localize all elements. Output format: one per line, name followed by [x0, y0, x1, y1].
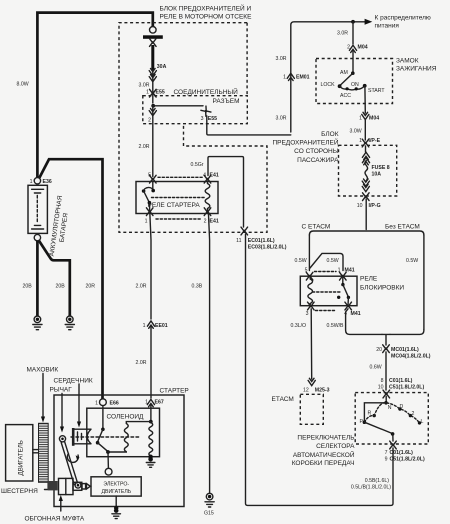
svg-text:0.5W/B: 0.5W/B: [327, 323, 345, 329]
svg-text:2: 2: [204, 219, 207, 225]
battery АККУМУЛЯТОРНАЯ БАТАРЕЯ: [28, 185, 70, 256]
svg-text:РЕЛЕ: РЕЛЕ: [360, 276, 378, 283]
dashed connector strip bottom M41: [316, 310, 337, 312]
svg-text:LOCK: LOCK: [321, 82, 336, 88]
connector chevron below 30A: [149, 69, 156, 76]
svg-text:MC01(1.6L): MC01(1.6L): [391, 347, 419, 353]
starter СТАРТЕР box: [54, 395, 184, 507]
svg-text:M41: M41: [345, 268, 355, 274]
svg-text:ПРЕДОХРАНИТЕЛЕЙ: ПРЕДОХРАНИТЕЛЕЙ: [272, 138, 338, 147]
svg-text:1: 1: [338, 268, 341, 274]
ignition switch dashed box ЗАМОК ЗАЖИГАНИЯ: [316, 59, 393, 104]
svg-text:1: 1: [30, 179, 33, 185]
svg-text:FUSE 8: FUSE 8: [372, 165, 390, 171]
svg-text:ПАССАЖИРА: ПАССАЖИРА: [297, 157, 339, 164]
svg-text:0.5L/B(1.8L/2.0L): 0.5L/B(1.8L/2.0L): [351, 485, 391, 491]
lock relay РЕЛЕ БЛОКИРОВКИ box: [300, 276, 357, 306]
svg-text:ДВИГАТЕЛЬ: ДВИГАТЕЛЬ: [18, 440, 25, 475]
connector 1 M04 lower: [362, 112, 369, 119]
solenoid hold-in coil from E67: [150, 405, 152, 421]
svg-text:КОРОБКИ ПЕРЕДАЧ: КОРОБКИ ПЕРЕДАЧ: [292, 460, 355, 467]
hold-in coil ground: [148, 455, 152, 459]
ground battery 2: [65, 316, 74, 330]
connector pin1 E41: [146, 208, 153, 216]
fuse 8 lower clip chevrons: [362, 179, 369, 186]
svg-text:3: 3: [306, 311, 309, 317]
svg-text:8.0W: 8.0W: [17, 82, 29, 88]
svg-text:E41: E41: [210, 219, 219, 225]
wire branch to M41 pin1: [310, 253, 343, 270]
svg-text:ЭЛЕКТРО-: ЭЛЕКТРО-: [103, 481, 129, 487]
terminal 1 E66 circle: [100, 399, 107, 406]
svg-text:20B: 20B: [23, 284, 33, 290]
svg-text:СЕЛЕКТОРА: СЕЛЕКТОРА: [316, 443, 355, 450]
svg-text:1: 1: [146, 90, 149, 96]
svg-text:5: 5: [148, 173, 151, 179]
svg-text:ЗАЖИГАНИЯ: ЗАЖИГАНИЯ: [396, 65, 437, 72]
connector strip dashes E41 top: [158, 176, 203, 178]
fuse 8 element: [365, 161, 368, 182]
svg-text:СЕРДЕЧНИК: СЕРДЕЧНИК: [54, 377, 93, 384]
dashed connector strip top M41: [315, 271, 337, 273]
svg-text:30A: 30A: [157, 64, 167, 70]
svg-text:P: P: [360, 419, 364, 425]
ground battery 1: [33, 316, 42, 330]
svg-text:EC03(1.8L/2.0L): EC03(1.8L/2.0L): [248, 244, 287, 250]
svg-text:2.0R: 2.0R: [139, 144, 150, 150]
svg-text:0.5W: 0.5W: [406, 258, 418, 264]
wire motor to ground: [115, 496, 117, 507]
svg-text:10: 10: [378, 385, 384, 391]
split rail with/without ETACM: [309, 231, 424, 235]
svg-text:2: 2: [347, 45, 350, 51]
svg-text:0.5W: 0.5W: [327, 258, 339, 264]
svg-text:Без ЕТАСМ: Без ЕТАСМ: [385, 224, 420, 231]
fusible link connector chevron: [150, 39, 157, 47]
passenger fuse box dashed outline: [339, 145, 397, 196]
pinion pointer line: [45, 489, 48, 491]
wire 2.0R EE01 to starter E67: [150, 327, 152, 398]
wire I/P-G down to split: [365, 199, 367, 230]
svg-text:10: 10: [357, 203, 363, 209]
svg-text:E66: E66: [110, 401, 119, 407]
connector pin2 E41: [204, 208, 211, 216]
svg-text:5: 5: [305, 268, 308, 274]
junction node power feed: [351, 20, 355, 24]
junction connector dashed box: [143, 96, 248, 124]
wire right branch to merge: [390, 330, 424, 335]
svg-text:3.0R: 3.0R: [276, 116, 287, 122]
svg-text:РЫЧАГ: РЫЧАГ: [50, 387, 73, 394]
svg-text:ЕТАСМ: ЕТАСМ: [272, 396, 294, 403]
svg-text:2.0R: 2.0R: [136, 284, 147, 290]
pinion ШЕСТЕРНЯ dark block: [47, 481, 57, 490]
svg-text:ПЕРЕКЛЮЧАТЕЛЬ: ПЕРЕКЛЮЧАТЕЛЬ: [297, 435, 354, 442]
svg-text:1: 1: [359, 138, 362, 144]
svg-text:АВТОМАТИЧЕСКОЙ: АВТОМАТИЧЕСКОЙ: [293, 450, 355, 459]
svg-text:11: 11: [236, 238, 241, 244]
lever arm РЫЧАГ: [59, 436, 81, 488]
svg-text:0.6W: 0.6W: [370, 365, 382, 371]
wire 2.0R relay pin1 down to EE01: [150, 215, 151, 320]
svg-text:EE01: EE01: [155, 323, 168, 329]
svg-text:M04: M04: [358, 45, 368, 51]
svg-text:START: START: [368, 88, 385, 94]
svg-text:E36: E36: [43, 179, 52, 185]
svg-text:1: 1: [143, 323, 146, 329]
svg-text:1: 1: [145, 400, 148, 406]
svg-text:ДВИГАТЕЛЬ: ДВИГАТЕЛЬ: [101, 489, 131, 495]
svg-text:0.3B: 0.3B: [192, 284, 203, 290]
svg-text:С ЕТАСМ: С ЕТАСМ: [302, 224, 331, 231]
connector 2 M04: [349, 45, 356, 52]
solenoid main contact: [96, 406, 110, 454]
svg-text:0.5B(1.6L): 0.5B(1.6L): [365, 478, 389, 484]
svg-text:M25-3: M25-3: [315, 388, 330, 394]
svg-text:C51(1.8L/2.0L): C51(1.8L/2.0L): [389, 385, 424, 391]
wire junction to pin3: [153, 105, 203, 107]
battery B- terminal circle: [34, 234, 40, 240]
starter relay РЕЛЕ СТАРТЕРА box: [136, 182, 218, 214]
svg-text:1: 1: [283, 75, 286, 81]
connector 1 EM01: [287, 73, 294, 80]
electric motor ЭЛЕКТРО-ДВИГАТЕЛЬ box: [91, 477, 141, 496]
svg-text:СТАРТЕР: СТАРТЕР: [160, 387, 189, 394]
relay E41 contact: [142, 182, 205, 212]
connector 3 E55 diagonal: [201, 106, 211, 116]
connector pin1 M41: [340, 272, 347, 280]
connector pin5 M41: [306, 272, 313, 280]
fusible link 30A body: [151, 45, 154, 70]
svg-text:EC01(1.6L): EC01(1.6L): [248, 238, 275, 244]
svg-text:СОЛЕНОИД: СОЛЕНОИД: [107, 414, 145, 421]
svg-text:ACC: ACC: [340, 93, 351, 99]
fusible link bar: [143, 35, 163, 39]
connector 12 M25-3: [308, 378, 315, 385]
svg-text:питания: питания: [375, 23, 400, 30]
battery positive cable 20R to starter: [39, 159, 103, 398]
junction node E55: [151, 104, 155, 108]
svg-text:3.0R: 3.0R: [337, 31, 348, 37]
svg-text:E55: E55: [208, 116, 217, 122]
fuse 8 upper clip chevrons: [365, 146, 367, 152]
wire 3.0R link to E55: [152, 70, 154, 103]
svg-text:ШЕСТЕРНЯ: ШЕСТЕРНЯ: [1, 488, 38, 495]
svg-text:EM01: EM01: [296, 75, 310, 81]
connector 10 I/P-G: [363, 193, 370, 201]
ETACM dashed box: [300, 394, 323, 424]
svg-text:0.5Gr: 0.5Gr: [191, 162, 204, 168]
svg-text:1: 1: [359, 116, 362, 122]
motor ground: [114, 506, 118, 510]
engine compartment fuse box dashed outline: [119, 23, 267, 233]
overrunning clutch body: [59, 478, 92, 494]
svg-text:10A: 10A: [372, 172, 382, 178]
svg-text:MC04(1.8L/2.0L): MC04(1.8L/2.0L): [391, 354, 431, 360]
wire without-ETACM branch down: [423, 235, 425, 330]
wire START to I/P-E: [364, 86, 366, 113]
wire battery+ to fusible link (8.0W thick): [37, 13, 152, 178]
connector pin5 E41: [150, 175, 157, 183]
svg-text:2: 2: [148, 118, 151, 124]
svg-text:C01(1.6L): C01(1.6L): [389, 378, 413, 384]
connector strip dashes E41 bottom: [156, 218, 202, 220]
svg-text:РЕЛЕ В МОТОРНОМ ОТСЕКЕ: РЕЛЕ В МОТОРНОМ ОТСЕКЕ: [160, 14, 253, 21]
svg-text:I/P-E: I/P-E: [369, 138, 381, 144]
svg-text:E67: E67: [155, 400, 164, 406]
svg-text:1: 1: [145, 219, 148, 225]
wire E55-3 to EM01 link: [207, 116, 291, 135]
arrowhead to power distributor: [365, 19, 373, 25]
ground G15: [205, 493, 214, 507]
connector 11 EC01/EC03: [241, 227, 248, 235]
svg-text:M04: M04: [369, 116, 379, 122]
connector 1 E67: [147, 399, 154, 406]
wire M terminal to motor: [107, 452, 109, 468]
fusible link 30A circle terminal: [150, 27, 157, 34]
connector 1 E55: [150, 89, 157, 97]
battery B+ terminal circle E36: [34, 178, 40, 184]
connector pin3 M41: [308, 302, 315, 310]
solenoid plunger link dashed: [71, 436, 141, 438]
svg-text:20R: 20R: [86, 284, 96, 290]
solenoid pull-in coil: [108, 422, 151, 452]
svg-text:N: N: [388, 405, 392, 411]
svg-text:8: 8: [381, 378, 384, 384]
connector 2 E55: [149, 109, 156, 116]
wire 20B battery- branch to ground 2: [39, 241, 70, 316]
relay E41 coil: [205, 182, 210, 214]
svg-text:ON: ON: [351, 82, 359, 88]
wire 2.0R junction to relay pin5: [152, 106, 154, 177]
svg-text:БЛОКИРОВКИ: БЛОКИРОВКИ: [360, 285, 404, 292]
svg-text:СОЕДИНИТЕЛЬНЫЙ: СОЕДИНИТЕЛЬНЫЙ: [174, 87, 239, 96]
svg-text:C51(1.8L/2.0L): C51(1.8L/2.0L): [390, 457, 425, 463]
connector 1 EE01: [147, 321, 154, 328]
connector 7/9 C01 C51 bottom: [390, 441, 397, 449]
solenoid СОЛЕНОИД box: [87, 408, 160, 457]
svg-text:M41: M41: [351, 311, 361, 317]
svg-text:СО СТОРОНЫ: СО СТОРОНЫ: [294, 148, 339, 155]
svg-text:ОБГОННАЯ МУФТА: ОБГОННАЯ МУФТА: [25, 516, 85, 523]
wire with-ETACM branch down: [308, 235, 310, 271]
svg-text:L: L: [421, 419, 424, 425]
wire 0.3L/O pin3 to M25-3: [310, 309, 313, 379]
svg-text:12: 12: [303, 388, 309, 394]
connector 1 I/P-E: [362, 139, 369, 147]
wire 3.0W: [364, 120, 366, 140]
connector pin4 M41: [345, 302, 352, 310]
svg-text:ЗАМОК: ЗАМОК: [396, 57, 419, 64]
svg-text:БЛОК ПРЕДОХРАНИТЕЛЕЙ И: БЛОК ПРЕДОХРАНИТЕЛЕЙ И: [160, 4, 252, 13]
wire 20B battery- to ground 1: [36, 241, 39, 316]
wire 0.5Gr E41-4 to EC01: [208, 157, 244, 227]
wire 0.3B relay pin2 down to G15: [209, 215, 210, 494]
selector switch dashed box: [355, 393, 428, 444]
svg-text:0.3L/O: 0.3L/O: [291, 323, 307, 329]
svg-text:3.0R: 3.0R: [276, 56, 287, 62]
svg-text:0.5W: 0.5W: [295, 258, 307, 264]
wire 0.5B selector to EC01: [246, 234, 394, 505]
svg-text:РЕЛЕ СТАРТЕРА: РЕЛЕ СТАРТЕРА: [148, 202, 201, 209]
svg-text:К распределителю: К распределителю: [375, 15, 431, 22]
merge rail to MC01: [382, 334, 390, 345]
svg-text:20: 20: [376, 347, 382, 353]
svg-text:E55: E55: [156, 90, 165, 96]
svg-text:РАЗЪЕМ: РАЗЪЕМ: [213, 98, 240, 105]
wire 0.6W: [385, 352, 387, 390]
flywheel hatched: [39, 423, 49, 482]
svg-text:AM: AM: [340, 70, 348, 76]
svg-text:4: 4: [203, 173, 206, 179]
svg-text:E41: E41: [210, 173, 219, 179]
svg-text:9: 9: [385, 457, 388, 463]
wire EM01 to power distribution arrow: [291, 22, 366, 132]
svg-text:I/P-G: I/P-G: [369, 203, 381, 209]
svg-text:2.0R: 2.0R: [136, 360, 147, 366]
motor commutator circle: [105, 468, 112, 475]
ignition switch internals: [321, 50, 386, 99]
svg-text:3.0W: 3.0W: [350, 129, 362, 135]
wire 0.5W/B pin4 to merge: [346, 309, 382, 335]
svg-text:20B: 20B: [56, 284, 66, 290]
svg-text:G15: G15: [204, 511, 214, 517]
connector 20 MC01/MC04: [383, 345, 390, 353]
selector internals: [360, 397, 424, 442]
wire junction down to M04-2: [352, 22, 354, 44]
connector pin4 E41: [204, 175, 211, 183]
connector chevron below 30A second: [149, 75, 156, 82]
relay M41 contact: [313, 276, 351, 306]
svg-text:1: 1: [95, 401, 98, 407]
connector 8/10 C01 C51: [383, 390, 390, 398]
svg-text:7: 7: [385, 450, 388, 456]
engine ДВИГАТЕЛЬ box: [6, 425, 33, 481]
svg-text:3.0R: 3.0R: [139, 83, 150, 89]
svg-text:3: 3: [201, 116, 204, 122]
svg-text:МАХОВИК: МАХОВИК: [27, 367, 59, 374]
relay M41 coil: [308, 276, 313, 306]
engine to flywheel link: [33, 450, 39, 453]
plunger core СЕРДЕЧНИК: [73, 428, 91, 446]
svg-text:БЛОК: БЛОК: [321, 131, 339, 138]
